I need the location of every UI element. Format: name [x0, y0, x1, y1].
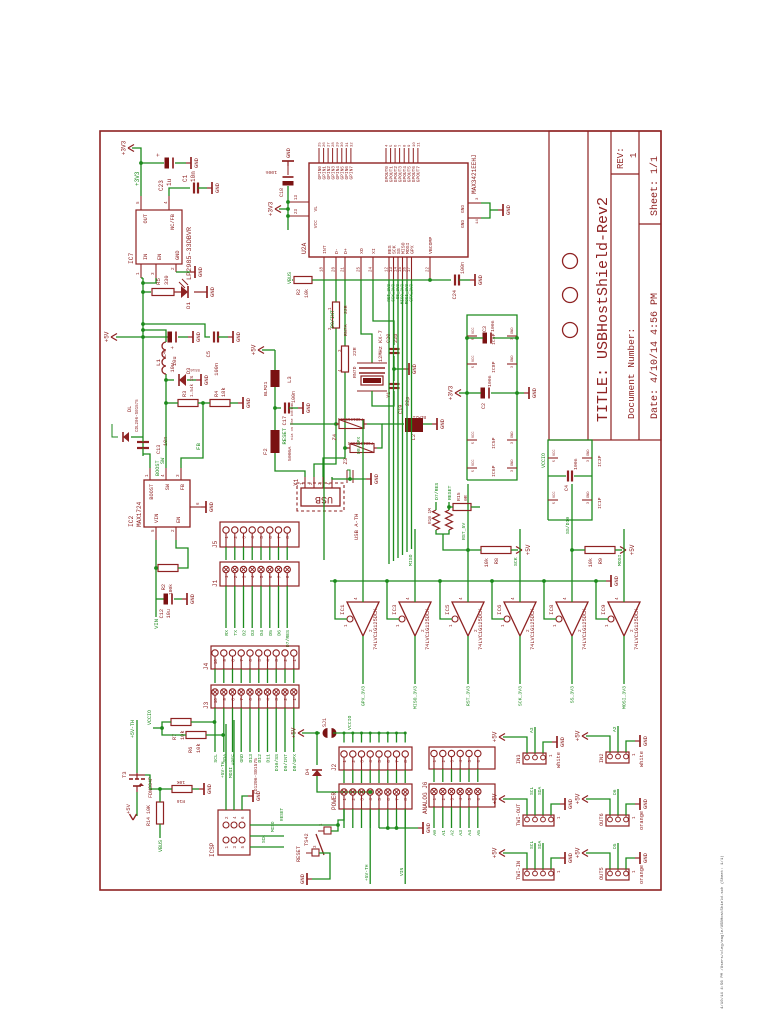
- wire R3 top: [166, 402, 178, 404]
- ground C5: [218, 336, 228, 338]
- regulator IC7 LP2985 box: [136, 210, 182, 264]
- net VIN: [155, 599, 157, 617]
- svg-text:A0: A0: [432, 830, 438, 836]
- wire D3 gnd: [187, 379, 196, 381]
- svg-text:BLM21: BLM21: [412, 414, 426, 419]
- wire pullup tops: [162, 722, 186, 735]
- svg-text:22: 22: [427, 267, 431, 272]
- svg-text:0R: 0R: [463, 495, 469, 501]
- svg-text:VCC: VCC: [472, 356, 476, 362]
- IC2 left pin stubs: [155, 527, 157, 540]
- connector J4: [211, 646, 299, 669]
- svg-text:FDN304P: FDN304P: [148, 777, 154, 798]
- wire L3 C17: [274, 387, 276, 408]
- svg-text:+3V3: +3V3: [448, 385, 455, 400]
- svg-text:GND: GND: [206, 783, 213, 794]
- svg-text:3: 3: [511, 442, 515, 444]
- svg-text:GND: GND: [567, 852, 574, 863]
- svg-text:VCC: VCC: [472, 328, 476, 334]
- svg-text:A2: A2: [612, 726, 618, 732]
- fuse F2 500mA: [274, 408, 276, 430]
- svg-text:3: 3: [476, 197, 480, 200]
- resistor R7 10k: [171, 719, 191, 726]
- svg-text:330: 330: [164, 275, 170, 285]
- wires analog nets: [433, 769, 435, 782]
- ground LED: [202, 291, 207, 293]
- svg-text:10k: 10k: [588, 558, 594, 567]
- power +5V R8: [511, 549, 518, 551]
- wire USB D- to chip: [314, 328, 336, 477]
- svg-text:1: 1: [145, 474, 150, 477]
- IC U2A MAX3421E box: [309, 163, 468, 257]
- ground C23: [186, 162, 191, 164]
- svg-text:74LVC1G125DCK: 74LVC1G125DCK: [634, 608, 640, 650]
- svg-text:27: 27: [328, 142, 332, 147]
- svg-text:GPOUT7: GPOUT7: [416, 166, 422, 183]
- svg-text:5: 5: [136, 201, 141, 204]
- svg-text:C3: C3: [482, 326, 488, 332]
- svg-text:MOSI_3V3: MOSI_3V3: [622, 686, 628, 709]
- svg-text:100n: 100n: [265, 169, 277, 175]
- svg-text:D4: D4: [259, 630, 265, 636]
- svg-text:VCCIO: VCCIO: [147, 710, 153, 725]
- power pins IC5P: [467, 439, 477, 441]
- svg-text:MISO: MISO: [408, 554, 414, 566]
- svg-text:1: 1: [633, 753, 637, 756]
- ground C12: [174, 598, 182, 600]
- svg-text:5: 5: [151, 529, 156, 532]
- svg-text:1: 1: [633, 870, 637, 873]
- svg-text:+: +: [155, 153, 162, 157]
- svg-text:100n: 100n: [214, 363, 220, 376]
- inductor L1 10u: [162, 342, 166, 374]
- svg-text:2: 2: [443, 798, 447, 801]
- wire R16 gnd: [192, 788, 199, 790]
- wire U2A gnd: [481, 203, 490, 218]
- ferrite L3 BLM21: [274, 350, 276, 370]
- svg-text:RN7D: RN7D: [352, 366, 358, 378]
- svg-text:INT: INT: [322, 245, 328, 254]
- wire SW net: [165, 374, 167, 468]
- svg-text:OUT: OUT: [143, 214, 149, 224]
- wire R5 LED: [174, 291, 181, 293]
- svg-text:VCC: VCC: [553, 492, 557, 498]
- sheet frame: [100, 131, 661, 890]
- svg-text:RST_5V: RST_5V: [461, 523, 467, 540]
- VCCIO block loop: [548, 440, 592, 520]
- wire IC5 input RST_5V: [467, 484, 469, 602]
- svg-text:1: 1: [558, 816, 562, 819]
- svg-text:+5V-TH: +5V-TH: [130, 720, 136, 738]
- svg-text:D10/SS: D10/SS: [274, 754, 280, 771]
- svg-text:21: 21: [342, 267, 346, 272]
- wire OUT6 +5V: [586, 799, 610, 815]
- svg-text:9: 9: [222, 698, 228, 701]
- wire IC3 input MISO: [414, 529, 416, 602]
- wire C20 right: [393, 344, 395, 346]
- wire IC3 output: [414, 636, 416, 684]
- power +3V3 regulator: [128, 148, 134, 152]
- svg-text:5: 5: [242, 846, 246, 849]
- USB pin1: [304, 477, 306, 488]
- svg-text:VCCIO: VCCIO: [347, 715, 353, 730]
- diode DL CDL206: [131, 436, 143, 438]
- wires POWER nets: [343, 809, 345, 828]
- mount hole circle 3: [563, 254, 578, 269]
- svg-text:3: 3: [176, 474, 181, 477]
- svg-text:GND: GND: [567, 798, 574, 809]
- svg-text:POWER: POWER: [331, 792, 338, 810]
- svg-text:5: 5: [377, 798, 383, 801]
- transistor T3 FDN304P: [136, 792, 138, 816]
- svg-text:GND: GND: [511, 460, 515, 466]
- svg-text:5: 5: [259, 536, 265, 539]
- svg-text:7: 7: [239, 698, 245, 701]
- wire Z join: [367, 424, 382, 448]
- svg-text:GND: GND: [285, 147, 292, 158]
- svg-text:GND: GND: [209, 286, 216, 297]
- svg-text:1: 1: [434, 798, 438, 801]
- resistor R16 10k: [172, 786, 192, 793]
- svg-text:74LVC1G125DCK: 74LVC1G125DCK: [530, 608, 536, 650]
- svg-text:500mA: 500mA: [287, 446, 293, 461]
- svg-text:R2: R2: [161, 584, 167, 590]
- capacitor C18 100n: [283, 181, 294, 186]
- capacitor C3 100n: [483, 333, 488, 344]
- wire BOOST net: [143, 454, 150, 468]
- wire T3 gate: [145, 775, 160, 789]
- wire NCFB to C1: [169, 188, 190, 196]
- capacitor C12 10u: [156, 598, 164, 600]
- wire F2 to USB: [275, 453, 305, 477]
- svg-text:10k: 10k: [484, 558, 490, 567]
- svg-text:14: 14: [395, 267, 399, 272]
- svg-text:10: 10: [413, 142, 417, 147]
- svg-text:IN3: IN3: [516, 754, 522, 764]
- svg-text:5: 5: [390, 144, 394, 147]
- diode D4: [312, 770, 322, 776]
- svg-text:7: 7: [395, 798, 401, 801]
- svg-text:TX: TX: [233, 630, 239, 636]
- buffer OE rail: [330, 580, 606, 582]
- ground C1: [207, 187, 212, 189]
- svg-text:5: 5: [257, 659, 263, 662]
- svg-text:1: 1: [605, 624, 610, 627]
- svg-text:RESET: RESET: [447, 485, 453, 500]
- svg-text:4: 4: [563, 597, 568, 600]
- svg-text:1: 1: [633, 816, 637, 819]
- wire IC6 output: [519, 636, 521, 684]
- svg-text:8: 8: [285, 575, 291, 578]
- svg-text:15: 15: [399, 267, 403, 272]
- op-amp buffer IC1: [347, 602, 379, 636]
- capacitor C19 22p: [389, 387, 400, 389]
- svg-text:OUT5: OUT5: [599, 867, 605, 880]
- svg-text:3: 3: [314, 845, 318, 848]
- svg-text:3: 3: [587, 460, 591, 462]
- svg-text:MAX3421EEHJ: MAX3421EEHJ: [471, 154, 478, 194]
- svg-text:VBCOMP: VBCOMP: [428, 237, 434, 254]
- svg-text:8: 8: [403, 798, 409, 801]
- svg-text:6: 6: [248, 698, 254, 701]
- op-amp buffer IC6: [504, 602, 536, 636]
- svg-text:GND: GND: [477, 274, 484, 285]
- svg-text:31: 31: [346, 142, 350, 147]
- svg-text:24: 24: [370, 267, 374, 272]
- svg-text:4: 4: [615, 597, 620, 600]
- wire R7 to SCL: [191, 721, 215, 723]
- wire R4 gnd: [203, 402, 210, 404]
- ground USB: [366, 478, 371, 480]
- svg-text:5: 5: [377, 760, 383, 763]
- wire IN3 nets: [534, 727, 536, 753]
- svg-text:A5: A5: [476, 830, 482, 836]
- svg-text:TITLE: USBHostShield-Rev2: TITLE: USBHostShield-Rev2: [595, 197, 612, 422]
- svg-text:5: 5: [257, 698, 263, 701]
- svg-text:A4: A4: [467, 830, 473, 836]
- svg-text:C17: C17: [282, 416, 288, 425]
- wire OUT5 +5V: [586, 853, 610, 869]
- wire TWI-OUT gnd: [551, 804, 560, 815]
- svg-text:2: 2: [351, 760, 357, 763]
- svg-text:1: 1: [434, 760, 438, 763]
- power +5V SJ1: [302, 732, 320, 734]
- resistor R2b 10k: [294, 277, 312, 284]
- svg-text:via on the bottom: via on the bottom: [290, 403, 295, 440]
- svg-text:6: 6: [242, 816, 246, 819]
- wire FB route: [181, 403, 203, 468]
- wire IN3 +5V: [503, 737, 527, 753]
- wire IC9 input MOSI: [623, 529, 625, 602]
- wire SJ1 down: [333, 732, 405, 734]
- svg-text:3: 3: [511, 470, 515, 472]
- svg-text:+5V: +5V: [629, 544, 636, 555]
- svg-text:IC1: IC1: [339, 604, 346, 615]
- svg-text:6: 6: [248, 659, 254, 662]
- svg-text:22R: 22R: [352, 347, 358, 356]
- svg-text:J4: J4: [203, 662, 210, 670]
- svg-text:VCC: VCC: [313, 220, 319, 229]
- svg-text:25: 25: [319, 142, 323, 147]
- svg-text:D+: D+: [343, 248, 349, 254]
- svg-text:12MHz KX-7: 12MHz KX-7: [378, 330, 384, 362]
- svg-text:GND: GND: [245, 397, 252, 408]
- svg-text:1.54k 1%: 1.54k 1%: [190, 376, 195, 397]
- wire IN2 +5V: [586, 736, 610, 752]
- svg-text:74LVC1G125DCK: 74LVC1G125DCK: [582, 608, 588, 650]
- svg-text:GND: GND: [195, 331, 202, 342]
- svg-text:4: 4: [164, 201, 169, 204]
- svg-text:NC/FB: NC/FB: [170, 214, 176, 230]
- svg-text:C1: C1: [182, 174, 189, 182]
- svg-text:white: white: [556, 752, 562, 768]
- svg-text:2: 2: [233, 536, 239, 539]
- svg-text:22p: 22p: [405, 397, 411, 406]
- wire L1 to +5V: [143, 330, 166, 342]
- svg-text:R14 10K: R14 10K: [146, 805, 152, 826]
- svg-text:R16: R16: [176, 798, 185, 804]
- ground IC2: [201, 506, 206, 508]
- wire cap mid gnd: [393, 356, 395, 381]
- svg-text:7: 7: [399, 144, 403, 147]
- svg-text:GND: GND: [613, 575, 620, 586]
- capacitor C4b 100n: [567, 471, 569, 482]
- svg-text:2: 2: [351, 798, 357, 801]
- svg-text:IC8P: IC8P: [491, 361, 497, 373]
- ground R16: [199, 788, 204, 790]
- svg-text:6: 6: [386, 798, 392, 801]
- svg-text:+5V: +5V: [492, 731, 499, 742]
- wires J2 POWER: [343, 770, 345, 783]
- svg-text:IC8: IC8: [548, 604, 555, 615]
- svg-text:A3: A3: [529, 727, 535, 733]
- wire TWI-IN nets: [534, 843, 536, 869]
- svg-text:IC6: IC6: [496, 604, 503, 615]
- wire EN join: [143, 278, 156, 283]
- svg-text:3: 3: [242, 575, 248, 578]
- wire TWI-OUT nets: [534, 789, 536, 815]
- svg-text:3: 3: [587, 502, 591, 504]
- svg-text:100n: 100n: [487, 375, 493, 387]
- svg-text:+5V: +5V: [575, 847, 582, 858]
- svg-text:25: 25: [358, 267, 362, 272]
- wire C23 tap: [141, 162, 164, 164]
- svg-text:F2: F2: [262, 448, 269, 455]
- wire IN2 nets: [617, 726, 619, 752]
- svg-text:Z3: Z3: [343, 458, 349, 464]
- wire OUT5 gnd: [626, 858, 635, 869]
- svg-text:+5V: +5V: [492, 847, 499, 858]
- svg-text:10n: 10n: [190, 171, 197, 182]
- ground icsp: [248, 795, 253, 797]
- svg-text:2: 2: [283, 698, 289, 701]
- power pins IC6P: [467, 467, 477, 469]
- wires J5 to J1: [225, 547, 227, 560]
- svg-text:29: 29: [337, 142, 341, 147]
- wire R5 branch: [143, 291, 151, 293]
- svg-text:CD1206-S01575: CD1206-S01575: [253, 758, 259, 794]
- svg-text:VCC: VCC: [472, 432, 476, 438]
- power pins IC1P: [548, 499, 558, 501]
- svg-text:Date: 4/10/14 4:56 PM: Date: 4/10/14 4:56 PM: [649, 293, 661, 419]
- svg-text:A1: A1: [441, 830, 447, 836]
- IC7 pin2 GND: [175, 264, 177, 272]
- svg-text:D4: D4: [305, 769, 311, 775]
- wire IC5 output: [467, 636, 469, 684]
- svg-text:GND: GND: [511, 328, 515, 334]
- svg-text:18: 18: [321, 267, 325, 272]
- resistor RN7D 22R: [342, 346, 349, 372]
- wire USB D+ to chip: [323, 372, 345, 477]
- svg-text:3: 3: [511, 366, 515, 368]
- svg-text:2: 2: [226, 816, 230, 819]
- svg-text:FB: FB: [195, 443, 202, 450]
- svg-text:12: 12: [386, 267, 390, 272]
- capacitor C20 22p: [389, 352, 400, 354]
- svg-text:28: 28: [332, 142, 336, 147]
- svg-text:CDL206-S01575: CDL206-S01575: [136, 399, 140, 432]
- ground buffer rail: [606, 580, 611, 582]
- svg-text:GND: GND: [531, 387, 538, 398]
- svg-text:IC3P: IC3P: [597, 455, 603, 467]
- svg-text:GND: GND: [193, 157, 200, 168]
- svg-text:R10 1M: R10 1M: [428, 508, 433, 524]
- svg-text:+5V-TH: +5V-TH: [220, 761, 226, 778]
- svg-text:+5V: +5V: [125, 803, 132, 814]
- wire OUT6 nets: [617, 789, 619, 815]
- svg-text:1: 1: [224, 575, 230, 578]
- svg-text:100n: 100n: [573, 458, 579, 470]
- svg-text:5: 5: [259, 575, 265, 578]
- svg-text:4: 4: [354, 597, 359, 600]
- svg-text:RST_3V3: RST_3V3: [466, 686, 472, 706]
- svg-text:MAX1724: MAX1724: [136, 501, 143, 527]
- svg-text:PGB1010604: PGB1010604: [337, 416, 363, 420]
- power +5V usb chain: [262, 349, 275, 351]
- svg-text:C12: C12: [159, 609, 165, 618]
- svg-text:BOOST: BOOST: [149, 484, 155, 500]
- svg-text:D2: D2: [242, 630, 248, 636]
- svg-text:GND: GND: [373, 473, 380, 484]
- resistor R14 10k: [157, 802, 164, 824]
- svg-text:IC2: IC2: [128, 515, 135, 527]
- ground U2A: [498, 209, 503, 211]
- net RESET usb area: [290, 423, 336, 425]
- svg-text:GND: GND: [203, 374, 210, 385]
- wire IC9 output: [623, 636, 625, 684]
- svg-text:GND: GND: [587, 450, 591, 456]
- wire zigzag join: [436, 530, 449, 534]
- svg-text:C13: C13: [156, 445, 162, 454]
- svg-text:GPIN7: GPIN7: [349, 166, 355, 180]
- svg-text:GND: GND: [461, 220, 466, 228]
- USB pin2: [313, 477, 315, 488]
- svg-text:4/10/14 4:56 PM /Users/oleg/ea: 4/10/14 4:56 PM /Users/oleg/eagle/USBHos…: [720, 855, 725, 1009]
- svg-text:TWI-OUT: TWI-OUT: [516, 804, 522, 826]
- svg-text:3: 3: [360, 760, 366, 763]
- svg-text:10u: 10u: [166, 609, 172, 618]
- svg-text:7: 7: [277, 575, 283, 578]
- power +5V boost: [116, 336, 143, 338]
- wire IN2 gnd: [626, 741, 635, 752]
- svg-text:EN: EN: [157, 254, 163, 260]
- svg-text:R5: R5: [155, 278, 162, 285]
- icsp bottom wires: [250, 846, 284, 848]
- svg-text:1: 1: [344, 624, 349, 627]
- svg-text:2: 2: [443, 760, 447, 763]
- connector OUT5: [606, 869, 629, 880]
- svg-text:6: 6: [268, 536, 274, 539]
- icsp right wires: [225, 724, 227, 810]
- connector J1: [220, 562, 299, 586]
- svg-text:MISO: MISO: [271, 821, 276, 832]
- svg-text:4: 4: [266, 698, 272, 701]
- wire LED gnd: [194, 291, 202, 293]
- wire IC8 OE: [544, 581, 556, 619]
- svg-text:4: 4: [460, 798, 464, 801]
- mount hole circle 1: [563, 323, 578, 338]
- svg-text:3: 3: [274, 659, 280, 662]
- svg-text:VBUS: VBUS: [158, 840, 164, 852]
- wire IC6 input SCK: [519, 529, 521, 602]
- svg-text:VCC: VCC: [553, 450, 557, 456]
- IC7 pin4 NCFB: [168, 196, 170, 210]
- svg-text:+5V-TH: +5V-TH: [364, 864, 370, 881]
- svg-text:R2: R2: [296, 289, 302, 295]
- mount hole circle 2: [563, 288, 578, 303]
- svg-text:1: 1: [292, 659, 298, 662]
- svg-text:SS/D10: SS/D10: [565, 517, 571, 534]
